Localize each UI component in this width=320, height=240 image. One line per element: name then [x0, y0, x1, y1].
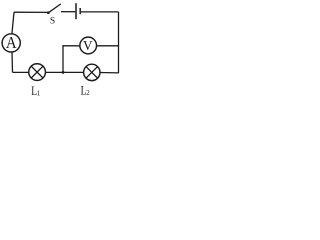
- svg-text:V: V: [83, 39, 93, 54]
- svg-text:2: 2: [86, 89, 90, 97]
- svg-text:S: S: [50, 17, 55, 27]
- svg-text:A: A: [6, 33, 17, 52]
- svg-text:1: 1: [37, 89, 41, 97]
